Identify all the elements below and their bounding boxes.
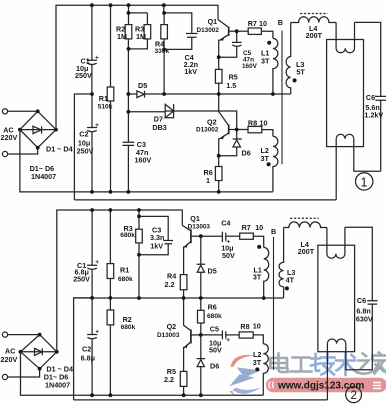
transformer core T2 xyxy=(273,237,275,370)
resistor R3b 680k xyxy=(136,229,143,243)
lamp1 tube xyxy=(327,40,364,147)
capacitor C4b 10u xyxy=(201,235,222,237)
L3b phase dot xyxy=(285,286,289,290)
junction dots bottom circuit xyxy=(90,208,265,397)
svg-text:DB3: DB3 xyxy=(152,123,166,132)
svg-text:1N4007: 1N4007 xyxy=(31,172,56,181)
winding L2 3T xyxy=(273,136,278,192)
svg-text:50V: 50V xyxy=(209,346,222,355)
diode D5b xyxy=(200,236,202,264)
svg-text:+: + xyxy=(227,238,231,245)
svg-text:10: 10 xyxy=(260,118,268,127)
svg-text:2: 2 xyxy=(350,390,356,402)
capacitor C5b 10u xyxy=(201,334,222,336)
svg-text:1N4007: 1N4007 xyxy=(45,381,70,390)
capacitor C6 5.6n xyxy=(375,96,386,100)
resistor R1b 680k xyxy=(109,210,111,264)
R4 stub from top rail xyxy=(163,5,165,13)
winding L4b core dashes xyxy=(290,217,319,219)
svg-text:3T: 3T xyxy=(253,273,262,282)
svg-text:D5: D5 xyxy=(208,267,217,276)
winding L3b 4T xyxy=(279,228,284,299)
rail2 right segment xyxy=(164,12,192,14)
svg-text:3T: 3T xyxy=(253,358,262,367)
winding L1b 3T xyxy=(264,247,269,298)
svg-text:R2: R2 xyxy=(123,315,132,324)
transistor Q1b D13003 xyxy=(182,225,190,230)
svg-text:1kV: 1kV xyxy=(184,67,197,76)
DC+ rail 2 xyxy=(57,210,183,352)
winding L4b 200T xyxy=(284,222,327,228)
svg-text:250V: 250V xyxy=(77,147,94,156)
transformer core T1 xyxy=(281,31,283,165)
mid rail 2 xyxy=(74,297,284,299)
lamp2 bottom filament xyxy=(327,339,345,344)
svg-text:250V: 250V xyxy=(75,71,92,80)
svg-text:4T: 4T xyxy=(286,276,295,285)
svg-text:D5: D5 xyxy=(138,81,147,90)
junction dots top circuit xyxy=(90,3,275,194)
svg-text:2.2: 2.2 xyxy=(165,280,175,289)
capacitor C5 47n xyxy=(236,31,238,42)
resistor R6 1 xyxy=(218,156,220,167)
watermark red pill www.dgjs123.com xyxy=(266,378,386,392)
watermark text 电工技术之家 xyxy=(271,353,386,376)
svg-text:680k: 680k xyxy=(120,232,135,239)
rail2 left segment xyxy=(129,12,148,14)
svg-text:R1: R1 xyxy=(120,266,129,275)
capacitor C4 2.2n xyxy=(191,12,193,33)
svg-text:330k: 330k xyxy=(155,48,170,55)
wire R2 line down with C3 xyxy=(127,39,129,142)
svg-text:+: + xyxy=(95,329,99,336)
lamp1 bottom filament xyxy=(336,134,354,138)
bridge 2 junction dots xyxy=(19,333,59,371)
svg-text:R1: R1 xyxy=(99,94,108,103)
resistor R7 10 xyxy=(237,30,249,32)
bridge rectifier 2 diamond xyxy=(21,335,57,369)
capacitor C1b line xyxy=(91,210,93,265)
svg-text:D1 ~ D4: D1 ~ D4 xyxy=(46,144,73,153)
winding L2b 3T xyxy=(263,344,268,396)
lamp2 bottom left pin xyxy=(326,344,328,400)
resistor R5b 2.2 xyxy=(180,371,187,386)
diode D6b xyxy=(200,335,202,358)
resistor R4 330k xyxy=(163,13,165,25)
lamp2 return wire xyxy=(74,399,328,401)
svg-text:50V: 50V xyxy=(222,251,235,260)
svg-text:6.8μ: 6.8μ xyxy=(81,353,95,362)
resistor R5 1.5 xyxy=(218,57,220,69)
svg-text:630V: 630V xyxy=(356,315,373,324)
capacitor C2b xyxy=(91,298,93,334)
node M wire xyxy=(164,93,291,95)
resistor R4b 2.2 xyxy=(180,275,187,290)
resistor R7b 10 xyxy=(240,233,254,239)
resistor R3 1M xyxy=(146,13,148,25)
bridge junction dots xyxy=(18,109,58,149)
svg-text:1.5: 1.5 xyxy=(226,81,236,90)
svg-text:C5: C5 xyxy=(210,325,219,334)
R3b stub xyxy=(138,210,140,229)
AC terminal T1 xyxy=(2,109,7,114)
diac rail to Q2 base xyxy=(128,111,165,113)
lamp1 top right wire to C6 xyxy=(355,22,381,96)
lamp2 tube xyxy=(318,245,355,352)
wire T2 to bridge xyxy=(8,148,38,154)
svg-text:R7: R7 xyxy=(248,19,257,28)
AC terminal T4 xyxy=(2,374,7,379)
svg-text:Q2: Q2 xyxy=(167,322,177,331)
resistor R1 510k xyxy=(110,5,112,87)
resistor R6b 680k xyxy=(200,298,202,310)
lamp2 top right wire to C6b xyxy=(345,227,372,300)
circle 1 marker xyxy=(356,173,373,190)
svg-text:Q1: Q1 xyxy=(208,17,218,26)
mid node wire 2 to lamp return xyxy=(74,298,93,400)
watermark logo xyxy=(229,355,261,396)
svg-text:200T: 200T xyxy=(298,247,315,256)
svg-text:R8: R8 xyxy=(240,322,249,331)
svg-text:680k: 680k xyxy=(118,276,133,283)
svg-text:+: + xyxy=(226,337,230,344)
svg-text:+: + xyxy=(95,259,99,266)
svg-text:250V: 250V xyxy=(73,274,90,283)
wire T1 to bridge xyxy=(8,110,38,112)
resistor R8 10 xyxy=(237,129,248,131)
AC terminal T2 xyxy=(2,151,7,156)
L1b phase dot xyxy=(257,245,261,249)
L1 phase dot xyxy=(267,41,271,45)
winding L4 200T xyxy=(291,17,336,23)
winding L4 200T core dashes xyxy=(300,13,328,15)
svg-text:3T: 3T xyxy=(261,57,270,66)
svg-text:Q1: Q1 xyxy=(190,214,200,223)
diode D5 xyxy=(128,93,137,95)
L3 phase dot xyxy=(293,78,297,82)
svg-text:D6: D6 xyxy=(210,361,219,370)
transistor Q2 D13002 xyxy=(219,94,229,125)
resistor R2 1M xyxy=(128,5,130,24)
svg-text:5T: 5T xyxy=(296,67,305,76)
lamp1 top filament xyxy=(336,22,354,52)
svg-text:D13002: D13002 xyxy=(196,127,219,134)
svg-text:1M: 1M xyxy=(117,32,127,41)
svg-text:D13002: D13002 xyxy=(197,27,220,34)
svg-text:R8: R8 xyxy=(248,118,257,127)
capacitor C6b 6.8n xyxy=(367,301,378,304)
svg-text:1: 1 xyxy=(361,175,368,189)
svg-text:3T: 3T xyxy=(261,154,270,163)
resistor R8b 10 xyxy=(239,332,253,338)
svg-text:10: 10 xyxy=(259,19,267,28)
transistor Q1 D13002 xyxy=(218,20,228,28)
svg-text:160V: 160V xyxy=(242,63,258,70)
wire T4 to bridge xyxy=(8,369,40,377)
circle 2 marker xyxy=(346,387,362,403)
svg-text:C2: C2 xyxy=(82,344,91,353)
mid node wire to lamp return xyxy=(74,94,92,200)
svg-text:200T: 200T xyxy=(306,31,323,40)
bridge rectifier D1-D4 diamond xyxy=(20,111,56,147)
svg-text:220V: 220V xyxy=(1,133,18,142)
bridge diode symbol xyxy=(33,126,42,133)
svg-text:+: + xyxy=(95,122,99,129)
L2 phase dot xyxy=(267,162,271,166)
svg-text:+: + xyxy=(95,54,99,61)
svg-text:C6: C6 xyxy=(366,93,375,102)
capacitor C3 47n xyxy=(123,142,135,145)
negative rail: bridge left vertex down, bottom rail xyxy=(20,130,273,192)
diac D7 DB3 xyxy=(165,104,173,118)
resistor R2b 680k xyxy=(109,298,111,310)
winding L1 3T xyxy=(273,38,278,94)
svg-text:D13003: D13003 xyxy=(157,332,180,339)
svg-text:2.2: 2.2 xyxy=(164,375,174,384)
wire T3 to bridge xyxy=(8,334,40,336)
svg-text:C6: C6 xyxy=(357,296,366,305)
lamp1 bottom left pin xyxy=(335,139,337,200)
svg-text:D13003: D13003 xyxy=(188,223,211,230)
winding L3 5T xyxy=(286,23,291,95)
transistor Q2b D13003 xyxy=(184,298,191,330)
svg-text:D6: D6 xyxy=(242,149,251,158)
capacitor C1 line xyxy=(91,5,93,60)
svg-text:680k: 680k xyxy=(121,324,136,331)
svg-text:C2: C2 xyxy=(79,130,88,139)
capacitor C3b loop xyxy=(139,216,168,240)
svg-text:510k: 510k xyxy=(98,104,113,111)
lamp1 bottom wire xyxy=(354,139,381,172)
svg-text:C4: C4 xyxy=(221,218,230,227)
svg-text:1.2kV: 1.2kV xyxy=(364,111,383,120)
bridge 2 diode symbol xyxy=(35,348,43,355)
svg-text:680k: 680k xyxy=(207,313,222,320)
negative rail 2 xyxy=(21,352,264,395)
svg-text:Q2: Q2 xyxy=(207,118,217,127)
L2b phase dot xyxy=(255,367,259,371)
lamp1 return wire xyxy=(74,199,336,201)
svg-text:10: 10 xyxy=(253,322,261,331)
DC+ wire: bridge right vertex up, top rail to Q1 collector xyxy=(56,5,218,129)
svg-text:B: B xyxy=(278,18,283,27)
svg-text:10: 10 xyxy=(255,223,263,232)
svg-text:220V: 220V xyxy=(1,355,18,364)
lamp2 bottom wire xyxy=(346,344,373,370)
svg-text:B: B xyxy=(271,227,276,236)
diode D6 xyxy=(236,130,238,139)
svg-text:1kV: 1kV xyxy=(150,242,163,251)
svg-text:R6: R6 xyxy=(208,302,217,311)
svg-text:160V: 160V xyxy=(135,156,152,165)
capacitor C2 line xyxy=(91,94,93,127)
svg-text:1: 1 xyxy=(206,176,210,185)
svg-text:R7: R7 xyxy=(242,223,251,232)
lamp2 top filament xyxy=(327,227,345,258)
AC terminal T3 xyxy=(2,332,7,337)
svg-text:1M: 1M xyxy=(136,32,146,41)
